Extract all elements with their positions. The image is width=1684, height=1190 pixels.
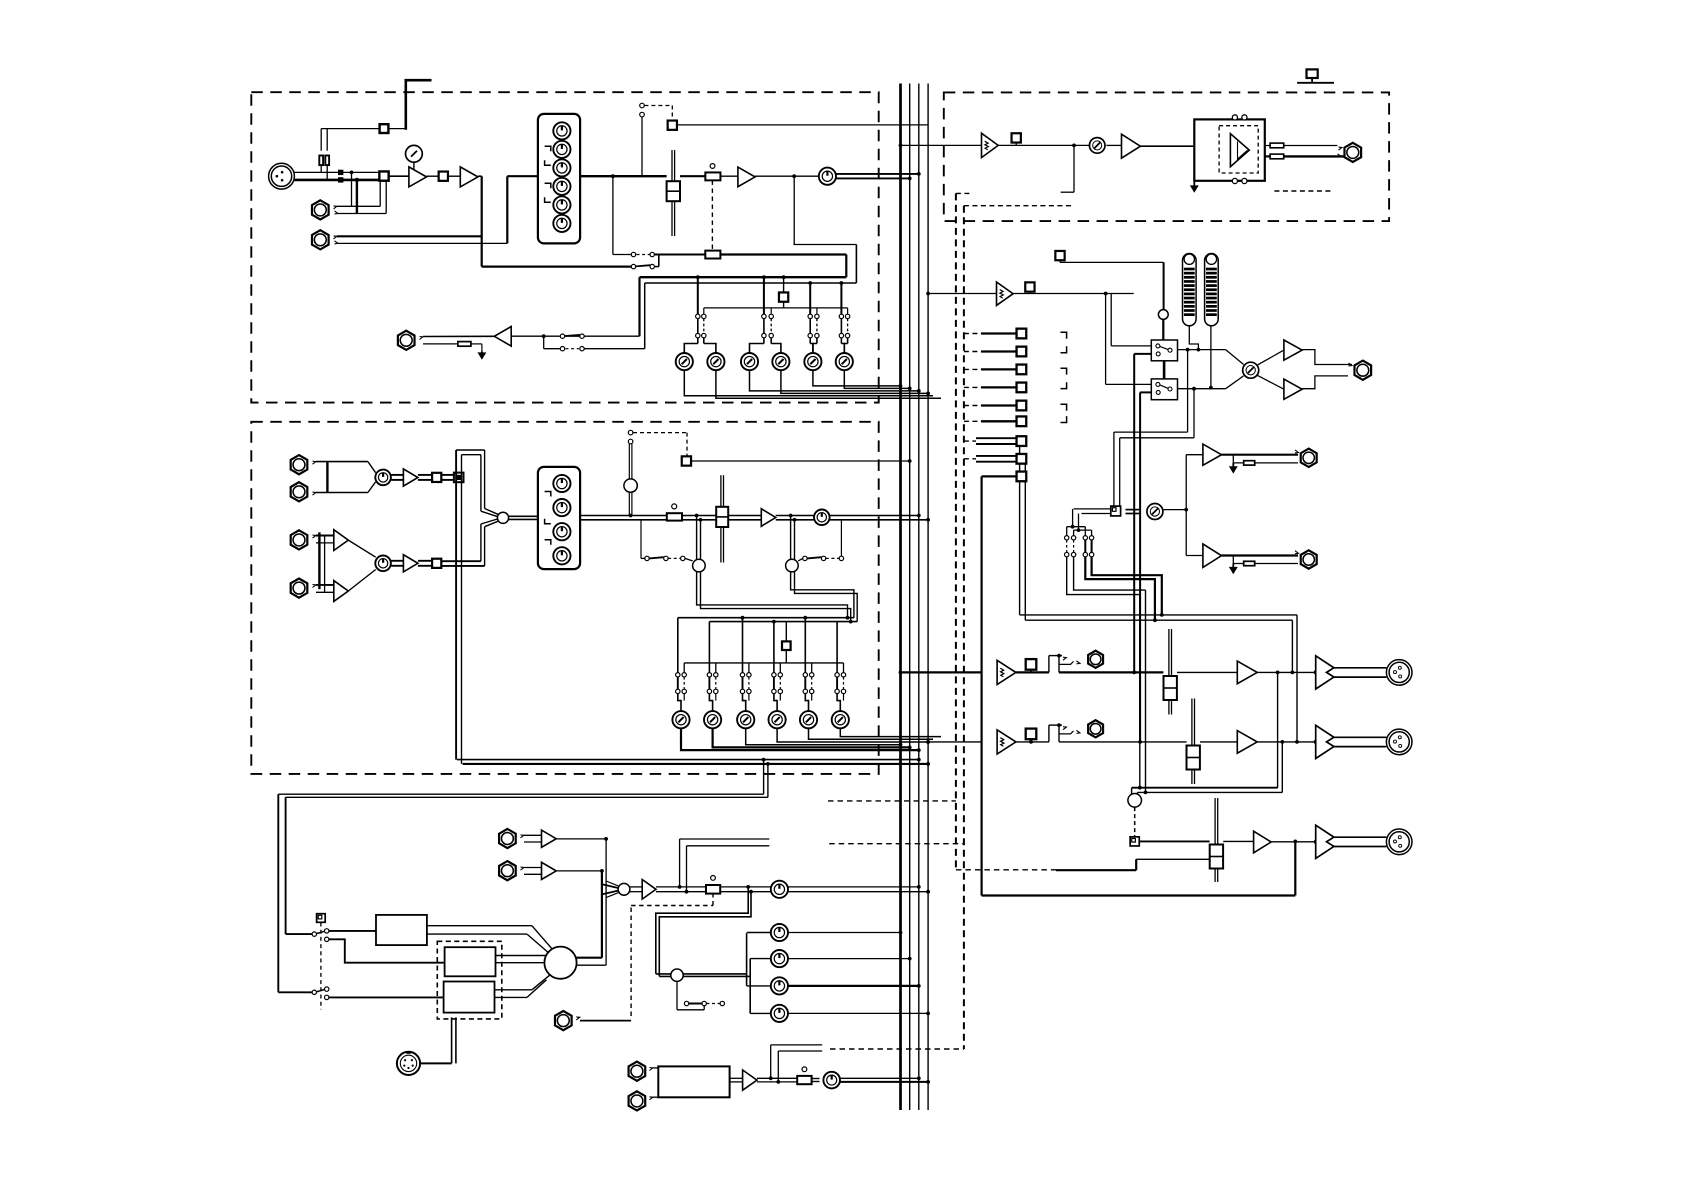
insert jack	[312, 230, 507, 249]
wire select link	[1163, 361, 1166, 379]
amp mono	[1254, 831, 1272, 853]
2TR box	[653, 1066, 730, 1097]
talkback switch	[1055, 251, 1163, 310]
aux pre/post switch 2	[782, 622, 791, 663]
wire aux feeds	[696, 275, 843, 314]
stereo input jack 1L	[291, 455, 316, 474]
wire EQ to fader	[580, 175, 667, 177]
wire sum wrap top	[456, 450, 499, 517]
mono input channel block border	[251, 92, 878, 402]
XLR out L	[1386, 660, 1412, 686]
speaker contacts bottom	[1232, 178, 1247, 183]
monitor on switch	[998, 133, 1090, 145]
wire sum to EQ	[509, 516, 538, 519]
wire fader out	[680, 175, 705, 177]
output resistors	[1265, 143, 1284, 159]
mono switch	[1130, 807, 1139, 846]
channel fader F2	[682, 475, 728, 562]
phantom resistor R1	[319, 129, 323, 173]
wire balanced out L	[1334, 668, 1387, 677]
monitor pots column	[747, 924, 930, 1022]
wire merge pair 2	[348, 540, 375, 591]
wire aux sends to bus	[684, 370, 941, 398]
sum amp ST L	[997, 660, 1016, 684]
wire pan2 L to bus	[830, 514, 921, 518]
junction ball	[624, 479, 637, 517]
pre contact row L	[641, 520, 693, 561]
chassis symbol	[1297, 69, 1334, 82]
aux feed bus A	[640, 277, 847, 336]
buffer amp A3	[720, 167, 755, 187]
switch S3	[427, 172, 461, 181]
monitor select box 2	[1151, 379, 1177, 400]
wire ST R	[1059, 741, 1187, 743]
ST R insert jack	[1088, 720, 1103, 737]
line input jack	[312, 200, 386, 219]
XLR mic input connector	[269, 163, 380, 189]
mono sum ball	[1128, 794, 1142, 808]
switch ST2	[418, 559, 485, 568]
ST L feed	[899, 671, 982, 675]
speaker jack	[1344, 143, 1361, 162]
2TR amp	[730, 1070, 757, 1090]
monitor send jack	[398, 331, 423, 350]
wire to bus	[788, 885, 930, 894]
return amp L	[524, 830, 556, 847]
aux send jack 2	[1301, 550, 1317, 568]
ST L fader	[1164, 629, 1177, 715]
meter R	[1205, 254, 1219, 326]
aux return jack L	[499, 829, 524, 848]
junction pads	[339, 170, 343, 182]
bus line 1 (thick)	[899, 84, 902, 1111]
effect block B	[444, 982, 495, 1013]
effect block A	[445, 947, 496, 976]
level pot ST2	[375, 556, 391, 572]
balanced amp A6a	[316, 530, 348, 551]
stereo input channel block border	[251, 422, 878, 774]
wire select in1	[1104, 292, 1152, 385]
ground 2	[1191, 182, 1198, 192]
wire ST L	[1059, 671, 1163, 673]
wire	[1257, 671, 1316, 673]
wire rec staircase	[1067, 557, 1164, 795]
wire	[1271, 841, 1316, 843]
phantom power switch	[380, 124, 405, 133]
aux pre/post switch	[779, 275, 788, 308]
wire select in3 STR	[1138, 392, 1151, 743]
monitor select box 1	[1151, 340, 1177, 361]
aux return jack R	[499, 861, 524, 880]
sum amp monitor	[982, 133, 999, 157]
aux master amp 1	[1203, 444, 1222, 465]
post switch	[705, 251, 720, 259]
bus brackets	[1061, 332, 1067, 422]
aux send pots 1-6	[676, 353, 853, 370]
wire return pair	[278, 758, 770, 993]
stereo input jack 2R	[291, 579, 316, 598]
aux feed bus B	[645, 283, 857, 349]
aux pre/post contact groups	[684, 314, 850, 353]
aux tap ball A	[693, 559, 706, 572]
merge diagonals	[602, 881, 620, 898]
effects dashed box	[437, 941, 502, 1019]
wire EQ2 out	[580, 516, 667, 520]
2TR in jack L	[629, 1062, 653, 1081]
wire sum outs	[576, 839, 606, 965]
ctrl room pot	[1147, 504, 1163, 520]
control bus dash line A	[956, 193, 971, 869]
merge ball	[618, 883, 630, 895]
wire aux2 out	[1222, 551, 1299, 556]
wire insert send	[478, 176, 482, 266]
mode switch	[317, 914, 326, 1010]
select contacts	[677, 981, 725, 1009]
phones feed	[926, 292, 996, 296]
wire aux feed line C	[684, 662, 843, 664]
control bus dash line B	[964, 206, 1072, 1049]
2TR in jack R	[629, 1091, 653, 1110]
ST R fader	[1187, 699, 1200, 785]
ctrl room switch	[1111, 506, 1139, 516]
wire post send	[720, 255, 846, 278]
bus line 4	[927, 84, 929, 1111]
channel on switch 2	[682, 456, 691, 465]
wire	[1200, 740, 1284, 744]
bus line 3	[918, 84, 920, 1111]
wire jack ring	[423, 342, 482, 352]
wire to effect A	[329, 939, 445, 962]
wire mono loop	[982, 476, 1298, 895]
XLR out R	[1386, 729, 1412, 755]
wire select line	[656, 933, 750, 1013]
wire amp out	[656, 887, 706, 892]
wire mono link	[956, 859, 1210, 870]
wire mono sum pair	[1132, 672, 1283, 795]
aux send pots 2-1..6	[672, 711, 849, 728]
2TR mute	[757, 1067, 812, 1084]
wire rec dashed	[828, 801, 964, 844]
monitor amp	[1106, 134, 1140, 158]
wire box outs	[427, 926, 552, 998]
channel fader F1	[667, 150, 680, 236]
phones jack	[1354, 361, 1371, 380]
wire nest feeds	[1067, 509, 1111, 532]
wire rec taps	[678, 839, 770, 894]
wire balanced out M	[1334, 837, 1387, 846]
phantom resistor R2	[325, 129, 329, 180]
mono fader	[1210, 798, 1223, 882]
ground	[479, 352, 486, 359]
level pot M	[720, 881, 788, 898]
wire to power amp	[1140, 145, 1194, 147]
pre contact pair	[631, 252, 654, 256]
wire to pan	[755, 174, 819, 178]
meter L	[1183, 253, 1197, 325]
ST L insert	[1049, 654, 1080, 673]
summing ball	[544, 947, 576, 979]
wire bowtie out	[1257, 350, 1284, 389]
aux drop pair B	[789, 514, 858, 622]
ST R on switch	[1016, 729, 1049, 744]
monitor amp A4	[423, 327, 511, 347]
wire aux alt feed	[704, 308, 848, 315]
XLR out mono	[1386, 829, 1412, 855]
mute switch	[705, 164, 720, 251]
ST assign bus L	[455, 450, 457, 760]
wire input ties	[319, 532, 324, 592]
wire contact merge	[654, 255, 705, 267]
post contact row R	[798, 520, 843, 561]
wire to line jack	[350, 171, 359, 214]
pan pot	[819, 168, 836, 185]
wire meter feeds	[1189, 326, 1213, 390]
balanced amp A6b	[316, 581, 348, 602]
source contacts lower	[278, 987, 443, 1000]
ST bus terminators	[964, 436, 1026, 463]
wire aux feed line A	[678, 616, 854, 620]
phones on switch	[1013, 282, 1134, 293]
wire ST bus exit	[457, 758, 930, 766]
amp A7	[391, 555, 418, 572]
+48V supply wire	[405, 79, 432, 130]
aux contact groups 2	[676, 618, 846, 711]
wire pre-EQ tap	[482, 266, 632, 268]
pad switch	[379, 171, 388, 180]
buffer amp A2	[460, 167, 478, 187]
monitor out feed	[899, 144, 982, 148]
equalizer EQ1 box	[538, 114, 580, 244]
wire 2TR to bus	[840, 1076, 930, 1083]
wire pad taps	[380, 181, 386, 214]
aux master amp 2	[1203, 544, 1222, 568]
switch pair ST1	[418, 473, 464, 483]
return amp R	[524, 862, 556, 879]
wire to pan2	[776, 516, 814, 520]
output amp ST R	[1314, 725, 1334, 758]
ST L insert jack	[1088, 651, 1103, 668]
wire balanced out R	[1334, 737, 1387, 746]
wire pan L to bus	[836, 172, 921, 176]
head amp A1	[389, 167, 427, 187]
mute group contacts 2	[628, 430, 687, 479]
ST assign bus R	[461, 455, 463, 764]
ST L on switch	[1016, 659, 1049, 672]
wire 2TR dashed	[830, 1048, 964, 1050]
monitor level pot	[1089, 138, 1105, 154]
bus line 2	[909, 84, 911, 1111]
footswitch jack	[555, 1011, 631, 1030]
wire select in2 STL	[1132, 354, 1151, 674]
wire post-amp tap	[793, 176, 856, 283]
wire ST sub pair	[1020, 446, 1299, 744]
level pot ST1	[375, 470, 391, 486]
wire mono	[1139, 840, 1209, 842]
mono bus terminator	[982, 472, 1027, 482]
phones amp R	[1284, 379, 1302, 399]
aux2 ring	[1230, 556, 1298, 574]
monitor source contacts	[560, 334, 644, 351]
aux drop pair A	[695, 514, 853, 624]
dashed stub	[1274, 190, 1332, 192]
amp ST R	[1237, 731, 1257, 754]
processor box	[376, 915, 427, 945]
speaker contacts top	[1232, 115, 1247, 120]
wire phones join	[1302, 350, 1352, 389]
sum amp phones	[997, 282, 1014, 305]
wire aux master feed	[1186, 455, 1203, 556]
amp ST L	[1237, 661, 1257, 684]
source contacts upper	[286, 929, 376, 942]
pan pot 2	[814, 510, 830, 526]
power amp box	[1194, 119, 1265, 180]
amp A5	[391, 469, 418, 486]
sum amp ST R	[997, 730, 1016, 754]
wire monitor feed	[511, 334, 639, 348]
wire sum wrap bottom	[481, 519, 499, 566]
channel on switch	[668, 121, 677, 130]
wire ctrl out	[1163, 508, 1188, 512]
phones amp L	[1284, 340, 1302, 360]
buffer amp A8	[728, 509, 776, 527]
wire speaker out	[1284, 146, 1344, 157]
wire pan R to bus	[836, 177, 912, 181]
wire input pair 1	[316, 462, 376, 493]
monitor select ball	[671, 969, 683, 981]
wire on-sw2 to bus	[691, 459, 912, 463]
monitor amp A9	[630, 880, 656, 900]
monitor output block border	[944, 92, 1389, 221]
wire 2TR taps	[769, 1045, 822, 1084]
stereo input jack 1R	[291, 482, 316, 501]
select lamp	[1158, 310, 1168, 340]
stereo input jack 2L	[291, 530, 316, 549]
wire pan2 R to bus	[830, 518, 930, 522]
wire on-sw to bus	[677, 124, 928, 126]
mute group contacts	[640, 103, 673, 176]
DIN connector	[397, 1052, 452, 1075]
wire	[1223, 840, 1253, 842]
wire monitor feed pair	[656, 885, 753, 976]
aux tap ball B	[786, 559, 799, 572]
ST R feed	[926, 740, 981, 744]
wire	[1177, 671, 1280, 675]
output amp ST L	[1314, 656, 1334, 689]
wire monitor mute tap	[1061, 144, 1076, 193]
wire insert return	[507, 176, 538, 243]
wire aux feed line B	[709, 620, 857, 624]
mute switch 3	[706, 876, 720, 894]
gain trim pot	[406, 145, 423, 171]
wire ctrl taps	[1114, 348, 1196, 507]
wire returns	[556, 837, 608, 873]
wire DIN leads	[452, 1017, 456, 1063]
wire bowtie	[1178, 350, 1244, 389]
aux1 ring	[1230, 455, 1298, 473]
rec source contacts	[1065, 527, 1094, 557]
wire phantom feed	[321, 128, 380, 130]
wire	[1257, 741, 1316, 743]
aux bus terminators	[964, 329, 1026, 427]
sum node	[497, 512, 508, 523]
wire aux1 out	[1222, 450, 1299, 455]
equalizer EQ2 box	[538, 467, 580, 569]
phones level pot	[1243, 362, 1259, 378]
output amp mono	[1314, 825, 1334, 858]
2TR level pot	[812, 1072, 840, 1089]
mute switch 2	[667, 504, 682, 521]
wire pre-fader tap	[611, 174, 631, 254]
ST R insert	[1049, 723, 1080, 742]
wire footswitch dashed	[631, 894, 713, 1016]
post contact pair	[631, 264, 654, 268]
wire aux2 sends to bus	[681, 728, 941, 752]
aux send jack 1	[1301, 449, 1317, 467]
